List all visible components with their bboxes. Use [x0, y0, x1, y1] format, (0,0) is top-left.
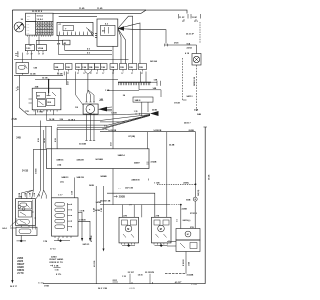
- label 27B c3: [123, 215, 127, 217]
- svg-text:17 13: 17 13: [50, 248, 56, 250]
- svg-text:M: M: [160, 228, 162, 231]
- wire x57 drop: [56, 128, 58, 149]
- label 34/2 11 vert: [197, 189, 200, 196]
- motor wedge arrow: [98, 107, 107, 112]
- comb connector strip: [118, 82, 151, 85]
- svg-text:B 1B 5B: B 1B 5B: [183, 259, 185, 266]
- wire motor feeds: [87, 90, 95, 102]
- label 34B 8: [135, 99, 142, 102]
- svg-text:17: 17: [96, 73, 98, 75]
- svg-text:4 1: 4 1: [176, 219, 179, 221]
- label 25/38 bold: [114, 195, 125, 198]
- label 34B/14: [118, 154, 126, 157]
- label 278 c5: [190, 227, 194, 229]
- svg-text:17B: 17B: [43, 241, 47, 243]
- label 24 small: [123, 94, 126, 97]
- svg-text:14 3B: 14 3B: [30, 73, 36, 76]
- label 4.1 OS: [129, 288, 135, 290]
- wire bus y120.5: [47, 115, 150, 121]
- module left pins: [95, 34, 97, 38]
- wire bus y204.6: [100, 204, 169, 206]
- label 34/52/8: [76, 158, 84, 161]
- svg-text:17: 17: [77, 73, 79, 75]
- label 4 RD: [57, 43, 61, 46]
- label 4 5 a: [87, 48, 91, 51]
- svg-text:13B: 13B: [89, 67, 93, 69]
- svg-text:4 8AB: 4 8AB: [151, 161, 157, 164]
- wire drop x75 row: [76, 72, 83, 106]
- label 2/7 3B: [128, 136, 135, 138]
- label 35B: [35, 87, 39, 89]
- svg-text:13B: 13B: [111, 67, 115, 69]
- svg-text:34B 8: 34B 8: [135, 99, 142, 102]
- C5 left stubs: [167, 240, 176, 246]
- svg-text:24 3B: 24 3B: [43, 138, 46, 143]
- svg-text:(11): (11): [60, 181, 64, 183]
- wire bus y75.3: [14, 74, 63, 76]
- svg-text:24/23(+): 24/23(+): [183, 219, 191, 222]
- svg-text:13B: 13B: [139, 67, 143, 69]
- C3 bottom pins: [122, 243, 135, 245]
- svg-text:17: 17: [38, 54, 40, 56]
- wire right border: [204, 127, 206, 284]
- label 34B right: [197, 113, 201, 116]
- label 2/8 dark: [12, 117, 18, 121]
- B1 pin ticks: [146, 162, 149, 164]
- wire drop x166: [166, 132, 168, 218]
- wire v x195.5 low: [194, 201, 196, 228]
- svg-text:34/2/5/7 4B: 34/2/5/7 4B: [100, 200, 111, 203]
- svg-text:34 4B: 34 4B: [169, 144, 175, 147]
- arrow x82: [81, 238, 83, 242]
- svg-text:4 R: 4 R: [57, 43, 61, 46]
- label 223B: [152, 110, 157, 112]
- svg-text:4 434B: 4 434B: [187, 273, 194, 276]
- connector row strip: [54, 64, 146, 70]
- label 838: [186, 199, 191, 201]
- junction x195.5: [195, 183, 197, 185]
- bottom bus ticks: [132, 282, 153, 284]
- wire 34B8 down a: [141, 102, 143, 116]
- label 524: [60, 118, 64, 121]
- svg-text:25/3B: 25/3B: [119, 197, 125, 199]
- label 22/4B: [182, 207, 188, 210]
- wire 34B8 down b: [147, 102, 149, 112]
- wire C2 out y212: [78, 212, 82, 238]
- relay 387 box: [32, 88, 61, 110]
- wire drop x96 long: [95, 186, 97, 284]
- fusebox text marks: [27, 15, 44, 21]
- motor circle: [86, 105, 95, 114]
- relay 387 inner b: [37, 100, 45, 107]
- wire box2 diag b: [88, 30, 94, 37]
- wire drop x64 row: [63, 72, 65, 76]
- wire C2 out y221: [78, 221, 90, 238]
- svg-text:17: 17: [83, 73, 85, 75]
- svg-text:HAND: HAND: [17, 266, 24, 269]
- svg-text:27/31.3: 27/31.3: [190, 213, 198, 215]
- wire top bus 11/4D upper: [12, 9, 146, 11]
- motor fan lines: [107, 107, 112, 111]
- svg-text:34/2(11): 34/2(11): [197, 189, 200, 196]
- module fan wedge: [118, 26, 124, 31]
- svg-text:13/3B: 13/3B: [111, 113, 117, 115]
- connector bracket 2728: [165, 43, 180, 47]
- wire box C drop: [64, 45, 66, 51]
- svg-text:13B: 13B: [66, 67, 70, 69]
- label vert x96: [92, 207, 95, 212]
- svg-text:24B: 24B: [16, 137, 21, 140]
- label 1753B: [174, 103, 181, 105]
- label 104: [186, 42, 190, 45]
- label 2211: [113, 280, 119, 282]
- label strip above fusebox: [32, 11, 43, 13]
- motor bottom pins: [86, 113, 96, 115]
- label 4 1 r: [104, 125, 108, 128]
- label 24/3B low: [95, 209, 101, 212]
- label 24 4 outside: [2, 227, 7, 230]
- wire 387 drop c: [53, 110, 55, 115]
- wire motor down b: [90, 114, 92, 140]
- ecu box B1: [47, 149, 150, 169]
- label 24713B: [118, 187, 133, 190]
- wire bus y50.3: [65, 49, 112, 51]
- label 1713 dark: [50, 248, 56, 250]
- arrow x103.5: [103, 249, 105, 252]
- label 34248: [100, 175, 107, 178]
- label 34/38 vertical: [193, 76, 196, 86]
- svg-text:DRIVE 21 TO: DRIVE 21 TO: [50, 262, 64, 264]
- svg-text:15 11A: 15 11A: [37, 15, 44, 18]
- label vert 481SB: [93, 260, 96, 267]
- label 343B small: [89, 184, 94, 187]
- label 22/34: [187, 46, 193, 49]
- wire bus y79.5: [35, 79, 118, 81]
- label 41 above relay: [30, 44, 32, 47]
- label 2 7H8: [37, 111, 43, 113]
- label 14 SB18 b: [153, 129, 161, 132]
- svg-text:M: M: [187, 234, 189, 236]
- relay B pins: [38, 51, 44, 56]
- svg-text:35/8: 35/8: [47, 102, 51, 104]
- svg-text:22/4X: 22/4X: [51, 255, 57, 258]
- svg-text:24B1B B: 24B1B B: [131, 178, 140, 181]
- ground arrow bottom-left: [11, 280, 13, 284]
- C1 wire labels vert: [18, 192, 41, 196]
- lock C5 top box: [176, 229, 200, 241]
- wire box2 diag a: [86, 28, 94, 34]
- wire merge drop: [87, 74, 89, 90]
- svg-text:34/3B 4 1B: 34/3B 4 1B: [193, 76, 196, 86]
- relay 387 inner c: [47, 99, 55, 106]
- svg-text:4 7B.B: 4 7B.B: [79, 218, 86, 221]
- svg-text:24 5 17: 24 5 17: [10, 285, 18, 288]
- label 1 3.7: [58, 195, 63, 197]
- C3 ground wire: [128, 244, 130, 245]
- label 24B18 B: [131, 178, 148, 181]
- label 1 3B: [105, 90, 110, 92]
- svg-text:17: 17: [141, 73, 143, 75]
- svg-text:13B: 13B: [95, 67, 99, 69]
- svg-text:24 21 3F: 24 21 3F: [186, 33, 195, 36]
- wire fan f2: [118, 23, 140, 64]
- wire drop fuse to relay A: [28, 37, 30, 45]
- relay plate box: [57, 22, 93, 35]
- svg-text:22/34: 22/34: [187, 46, 193, 49]
- svg-text:DRIVE: DRIVE: [17, 270, 24, 272]
- S1 border ticks: [16, 88, 17, 91]
- svg-text:14 1B: 14 1B: [42, 77, 48, 80]
- wedge 223B: [150, 111, 159, 116]
- ground C2: [54, 239, 70, 242]
- svg-text:1 3B: 1 3B: [101, 207, 103, 212]
- svg-text:1 35: 1 35: [134, 111, 138, 113]
- relay 387 bottom pins: [34, 110, 57, 112]
- wire drop x122: [121, 205, 123, 218]
- label 34 4B right: [169, 144, 175, 147]
- wire dashed x196 label: [194, 110, 199, 112]
- wire relay to switch S1: [22, 53, 24, 63]
- label 11 4D: [79, 7, 85, 10]
- label 11 4D b: [97, 7, 103, 10]
- label (11): [60, 181, 64, 183]
- C1 inner top: [18, 202, 32, 211]
- svg-text:13B: 13B: [129, 67, 133, 69]
- svg-text:24/5 21: 24/5 21: [83, 243, 91, 246]
- svg-text:RIGHT HAND: RIGHT HAND: [50, 258, 64, 261]
- svg-text:41 O5º: 41 O5º: [175, 281, 182, 284]
- wire bus y126.4: [13, 126, 51, 197]
- relay 387 contact: [47, 92, 57, 96]
- wire drop x141: [141, 205, 143, 218]
- label 4 18 lamp: [185, 52, 190, 55]
- svg-text:13B: 13B: [33, 68, 37, 70]
- label 1 3.135: [191, 284, 197, 286]
- wire x40.7 drop: [40, 121, 42, 191]
- svg-text:14 5B1B: 14 5B1B: [153, 129, 161, 132]
- fusebox grid outer: [36, 21, 53, 35]
- label 34/2/5/7/4B: [100, 200, 111, 203]
- label 1 35 a: [122, 276, 127, 278]
- note block left: [17, 257, 25, 275]
- wire motor down a: [86, 114, 88, 140]
- label 13/3B: [111, 113, 117, 115]
- label 34B/13: [61, 176, 69, 179]
- label 20/8C: [183, 183, 189, 185]
- relay 387 left stubs: [29, 99, 33, 103]
- svg-text:175B: 175B: [44, 285, 49, 287]
- wire top bus third: [59, 16, 97, 18]
- label 24.3.1.SB: [98, 287, 108, 290]
- label 35 15578: [145, 272, 155, 284]
- wire diag into y114.9: [20, 75, 28, 115]
- svg-text:13B: 13B: [82, 67, 86, 69]
- label 34/313 b: [186, 95, 193, 98]
- C1 right side wires: [32, 200, 36, 230]
- label 14 35: [138, 274, 144, 277]
- svg-text:23/2X: 23/2X: [17, 261, 23, 263]
- wire v x113 low: [112, 169, 114, 205]
- svg-text:34 5/4B: 34 5/4B: [95, 158, 103, 161]
- svg-text:13B: 13B: [76, 67, 80, 69]
- relay 387 inner a: [36, 92, 45, 98]
- lamp box: [192, 54, 201, 66]
- C5 motor: [185, 231, 191, 237]
- box 34B8: [133, 97, 153, 102]
- wire 2728 line: [170, 44, 197, 46]
- label 34 5/4B: [95, 158, 103, 161]
- label 34132A: [150, 60, 158, 63]
- wire x33.4 drop: [32, 149, 34, 190]
- note block mid: [50, 255, 64, 276]
- label 14 3B c: [49, 118, 55, 121]
- wire ignition to fusebox: [24, 26, 26, 28]
- wire relay B up to bus: [35, 40, 37, 44]
- motor bracket label: [99, 98, 104, 101]
- wire x43.6 drop: [43, 130, 45, 190]
- label 3/5 3B vert: [209, 174, 211, 180]
- wire L comb down: [139, 85, 161, 97]
- svg-text:223B: 223B: [152, 110, 157, 112]
- switch S1 box: [16, 63, 29, 74]
- wire bus y121.9: [100, 114, 150, 122]
- svg-text:2/7(3B): 2/7(3B): [128, 136, 135, 138]
- svg-text:24 3 1 5B: 24 3 1 5B: [98, 287, 108, 290]
- wire stub B1 left: [33, 148, 46, 150]
- switch C2 box: [52, 198, 79, 236]
- svg-text:– –: – –: [27, 24, 30, 26]
- label 34B/14 vert: [110, 142, 113, 146]
- C2 ground wire: [57, 238, 59, 241]
- label 24 21 3F: [186, 33, 195, 36]
- junction x180.8: [180, 204, 182, 206]
- label 24 3B vert: [43, 138, 46, 143]
- ignition switch circle: [14, 22, 24, 32]
- wire B1 to C2: [74, 178, 76, 198]
- ticks 1 35 on bus: [134, 111, 140, 115]
- wire y90.3 left: [107, 89, 139, 91]
- C1 inner low: [17, 219, 30, 224]
- C4 bottom pins: [154, 243, 167, 245]
- svg-text:11 8F: 11 8F: [192, 17, 198, 19]
- wire module bottom drop: [112, 46, 114, 63]
- label 14 3B a: [30, 73, 36, 76]
- wire bus y127.7: [57, 115, 150, 128]
- label 14 SB18 a: [108, 129, 116, 132]
- label 34 34B: [79, 143, 86, 146]
- svg-text:8 17L: 8 17L: [56, 274, 62, 276]
- svg-text:17: 17: [102, 73, 104, 75]
- label 14 18 r: [102, 128, 108, 131]
- connector row pins: [57, 70, 143, 75]
- svg-text:11 4D: 11 4D: [97, 7, 103, 10]
- svg-text:RIGHT: RIGHT: [17, 264, 25, 266]
- svg-text:1 5/B: 1 5/B: [80, 211, 85, 213]
- svg-text:––: ––: [168, 240, 170, 242]
- label AB right: [151, 161, 157, 164]
- C5 bottom box: [176, 240, 200, 252]
- svg-text:3/5 3B: 3/5 3B: [209, 174, 211, 180]
- svg-text:2/3B: 2/3B: [194, 110, 199, 112]
- svg-text:34/313: 34/313: [186, 95, 193, 98]
- C4 inner parts: [154, 220, 169, 238]
- svg-text:41: 41: [30, 44, 32, 47]
- svg-text:3 4 150: 3 4 150: [38, 282, 44, 284]
- svg-text:4 N5B: 4 N5B: [34, 168, 37, 174]
- connector 11/3F: [179, 14, 189, 19]
- wire bus y193.2: [107, 193, 155, 217]
- label 14 3B4 bold: [68, 118, 76, 121]
- label 34B/15: [56, 158, 64, 161]
- wire lamp down dashed: [196, 65, 198, 111]
- connector box C: [63, 40, 70, 45]
- label 4 1 vert rt: [176, 219, 179, 221]
- svg-text:4 1: 4 1: [59, 23, 62, 26]
- wire relay A drop to bus: [31, 53, 33, 60]
- label 34/5B: [96, 201, 102, 204]
- C1 lower box: [16, 227, 37, 235]
- wire merge diag a: [85, 72, 91, 75]
- label 3 4 150 faint: [38, 282, 44, 284]
- wire motor down c: [93, 114, 95, 140]
- wire bus y131.7: [100, 131, 196, 133]
- wire v x195.5: [195, 132, 197, 197]
- wire bus y129.7: [57, 116, 150, 130]
- ground C4: [155, 244, 168, 247]
- svg-text:14 1B: 14 1B: [102, 128, 108, 131]
- svg-text:– –: – –: [27, 33, 30, 35]
- label 4 5 b: [87, 52, 91, 55]
- svg-text:– –: – –: [27, 27, 30, 29]
- wire drop fuse to relay B: [38, 37, 40, 45]
- motor box: [83, 104, 98, 114]
- label 23 157: [128, 272, 135, 284]
- wire dashed drop from 11/8F: [199, 22, 201, 43]
- label 1?8 motor: [75, 107, 79, 109]
- label vert 4513B: [90, 235, 93, 242]
- wire bus y59.5: [14, 59, 129, 61]
- svg-text:34B: 34B: [197, 113, 201, 116]
- svg-text:B3B: B3B: [186, 199, 191, 201]
- relay box A: [25, 45, 34, 51]
- label 41.05 bold: [175, 281, 182, 284]
- label 4 5B vert: [71, 190, 74, 194]
- label 17 5B box: [44, 285, 49, 287]
- c1 feed fan: [21, 190, 46, 199]
- svg-text:34 34B: 34 34B: [79, 143, 86, 146]
- svg-text:11 3F: 11 3F: [179, 17, 185, 19]
- wire bus y54.4: [58, 53, 112, 55]
- label 4 18 vert x66: [66, 81, 69, 85]
- svg-text:20/BC: 20/BC: [183, 183, 189, 185]
- svg-text:34B/14: 34B/14: [118, 154, 126, 157]
- svg-text:34B/13: 34B/13: [61, 176, 69, 179]
- label 578: [18, 197, 22, 199]
- relay box B: [37, 45, 47, 51]
- wire fan f4: [118, 29, 121, 64]
- svg-text:21 TO: 21 TO: [17, 273, 24, 275]
- wire lamp feed: [196, 45, 198, 54]
- switch S1 pins: [22, 73, 24, 75]
- wire x147.5 to B1: [147, 132, 149, 149]
- label 1 78: [25, 111, 29, 113]
- svg-text:24 1B: 24 1B: [22, 169, 28, 172]
- junction dot y79.5: [48, 79, 50, 81]
- svg-text:17: 17: [90, 73, 92, 75]
- label 24 18 dark: [22, 169, 28, 172]
- svg-text:M: M: [127, 228, 129, 231]
- svg-text:24/31 7: 24/31 7: [184, 122, 192, 125]
